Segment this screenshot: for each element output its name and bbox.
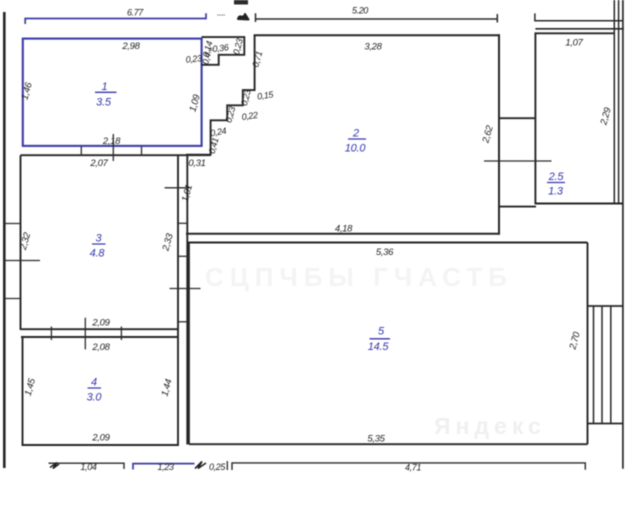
- svg-text:СЦПЧБЫ ГЧАСТБ: СЦПЧБЫ ГЧАСТБ: [205, 262, 513, 292]
- room 2.5 left wall: [534, 32, 536, 204]
- svg-text:1.3: 1.3: [548, 186, 564, 198]
- dimension bracket (cut), top right: [535, 13, 623, 20]
- room 2.5 number underline: [547, 182, 565, 184]
- balcony top line: [588, 305, 623, 307]
- svg-text:2.5: 2.5: [548, 171, 565, 183]
- room 2.5 bottom wall: [535, 203, 623, 205]
- interior double wall right line: [186, 155, 188, 445]
- svg-text:1,04: 1,04: [81, 462, 97, 472]
- svg-text:0,25: 0,25: [209, 462, 226, 472]
- svg-text:2,09: 2,09: [91, 433, 110, 444]
- dimension separator tick: [112, 134, 114, 161]
- room 2 bottom wall: [186, 233, 500, 235]
- outer right wall: [622, 0, 624, 469]
- room 2 right wall: [498, 34, 500, 234]
- svg-text:2,08: 2,08: [91, 342, 110, 353]
- bottom bracket 2: [232, 463, 585, 470]
- notch wall at room 1 top-right: [202, 37, 245, 65]
- cut-off squiggle mark, top: [238, 14, 249, 20]
- svg-text:4: 4: [91, 377, 97, 389]
- bottom bracket blue: [133, 464, 195, 470]
- cut-off mark at top edge: [234, 0, 248, 5]
- window line right 1: [613, 0, 615, 204]
- bottom bracket 1: [49, 463, 125, 469]
- svg-text:10.0: 10.0: [345, 143, 367, 155]
- room 2 number underline: [348, 138, 366, 140]
- double wall tick y288 (long): [170, 288, 201, 290]
- room 4 door tick left: [50, 327, 52, 341]
- double wall tick y322: [177, 321, 188, 323]
- svg-text:5,35: 5,35: [367, 434, 385, 445]
- room 4 door tick right: [120, 327, 122, 341]
- room 5 left wall: [188, 243, 190, 445]
- room 5 right wall: [587, 243, 589, 445]
- svg-text:4.8: 4.8: [90, 248, 106, 260]
- bottom bracket 1 break mark: [50, 463, 59, 469]
- svg-text:4,18: 4,18: [335, 224, 353, 235]
- room 5 number underline: [370, 338, 391, 340]
- svg-text:3,28: 3,28: [364, 42, 382, 53]
- svg-text:2: 2: [352, 128, 359, 140]
- room 3 number underline: [92, 243, 106, 245]
- svg-text:6.77: 6.77: [127, 8, 144, 18]
- dimension bracket (cut) blue, top left: [25, 13, 206, 24]
- room 4 separator tick (long): [84, 318, 86, 350]
- balcony window line 1: [593, 306, 595, 424]
- wall: outer left: [3, 12, 6, 468]
- door jamb tick right: [141, 147, 143, 156]
- room 2.5 top horizontal line: [535, 28, 623, 30]
- left wall tick 1: [4, 223, 20, 225]
- svg-text:1,07: 1,07: [565, 38, 583, 49]
- room 5 bottom wall: [189, 443, 588, 445]
- svg-text:....: ....: [217, 8, 225, 18]
- room 4 top wall: [21, 336, 178, 338]
- room 2 left zigzag wall: [186, 35, 255, 155]
- balcony window line 3: [610, 306, 612, 424]
- svg-text:3.0: 3.0: [87, 392, 103, 404]
- room 3 left wall: [20, 155, 22, 330]
- room 1 number underline: [95, 91, 117, 93]
- shaft top line between room 2 and room 2.5: [499, 117, 536, 119]
- svg-text:0,23: 0,23: [185, 53, 202, 65]
- left wall tick 2 (long): [4, 260, 40, 262]
- double wall tick y223: [177, 222, 188, 224]
- break mark 2: [195, 462, 206, 469]
- svg-text:14.5: 14.5: [368, 341, 390, 353]
- svg-text:1: 1: [102, 81, 108, 93]
- svg-text:3.5: 3.5: [96, 97, 112, 109]
- svg-text:1,23: 1,23: [158, 462, 174, 472]
- room 1 outline (blue): [23, 39, 202, 146]
- svg-text:4,71: 4,71: [405, 463, 421, 473]
- room 3 top wall: [21, 154, 211, 156]
- double wall tick y256: [177, 255, 188, 257]
- interior double wall left line: [177, 155, 179, 446]
- svg-text:2,18: 2,18: [102, 136, 121, 147]
- svg-text:5.20: 5.20: [352, 6, 368, 16]
- svg-text:Яндекс: Яндекс: [434, 413, 546, 439]
- left wall tick 3: [4, 298, 20, 300]
- room 3 bottom wall: [21, 328, 179, 330]
- door jamb tick left: [80, 147, 82, 156]
- shaft bottom line: [499, 206, 536, 208]
- window line right 2: [618, 0, 620, 204]
- dimension bracket (cut), top center: [256, 13, 498, 22]
- svg-text:2,07: 2,07: [89, 158, 108, 169]
- room 2.5 top wall: [535, 32, 614, 34]
- tick after 0.25: [226, 461, 228, 470]
- svg-text:2,09: 2,09: [91, 318, 110, 329]
- balcony window line 2: [601, 306, 603, 424]
- room 5 top wall: [187, 242, 588, 244]
- room 2 top wall: [254, 34, 500, 36]
- room 4 left wall: [22, 337, 24, 446]
- svg-text:5,36: 5,36: [376, 247, 394, 258]
- svg-text:0,31: 0,31: [188, 158, 205, 169]
- room 4 number underline: [88, 387, 102, 389]
- room 4 bottom wall: [22, 444, 179, 446]
- svg-text:2,98: 2,98: [121, 41, 140, 52]
- balcony bottom line: [588, 423, 623, 425]
- dimension tick line y161: [484, 160, 552, 162]
- double wall tick y188 (long): [165, 187, 190, 189]
